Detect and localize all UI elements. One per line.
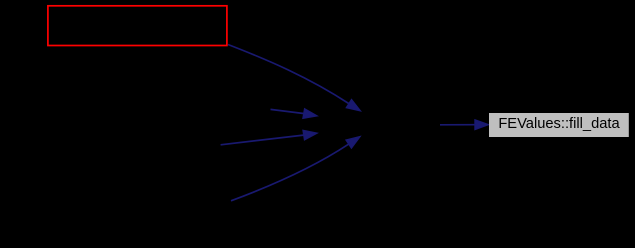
edge 2: caller 2 -> center node (straight), wire xyxy=(271,109,304,113)
edge 3: caller 3 -> center node (straight), wire xyxy=(221,135,304,145)
edge 3 arrowhead xyxy=(303,130,318,140)
edge 4 arrowhead xyxy=(346,136,361,148)
edge 1: red box -> center node (curved), wire xyxy=(228,45,349,104)
edge 2 arrowhead xyxy=(303,108,318,118)
edge 5 arrowhead xyxy=(475,119,490,129)
svg-text:FEValues::fill_data: FEValues::fill_data xyxy=(498,116,620,132)
edge 1 arrowhead xyxy=(346,99,361,111)
node U: FEValues::fill_data (gray box) xyxy=(489,113,629,137)
node: truncated caller (red box, label hidden) xyxy=(48,6,227,46)
edge 4: caller 4 -> center node (curved), wire xyxy=(231,144,349,201)
edge 5: center node -> FEValues::fill_data (straight), wire xyxy=(440,124,475,126)
